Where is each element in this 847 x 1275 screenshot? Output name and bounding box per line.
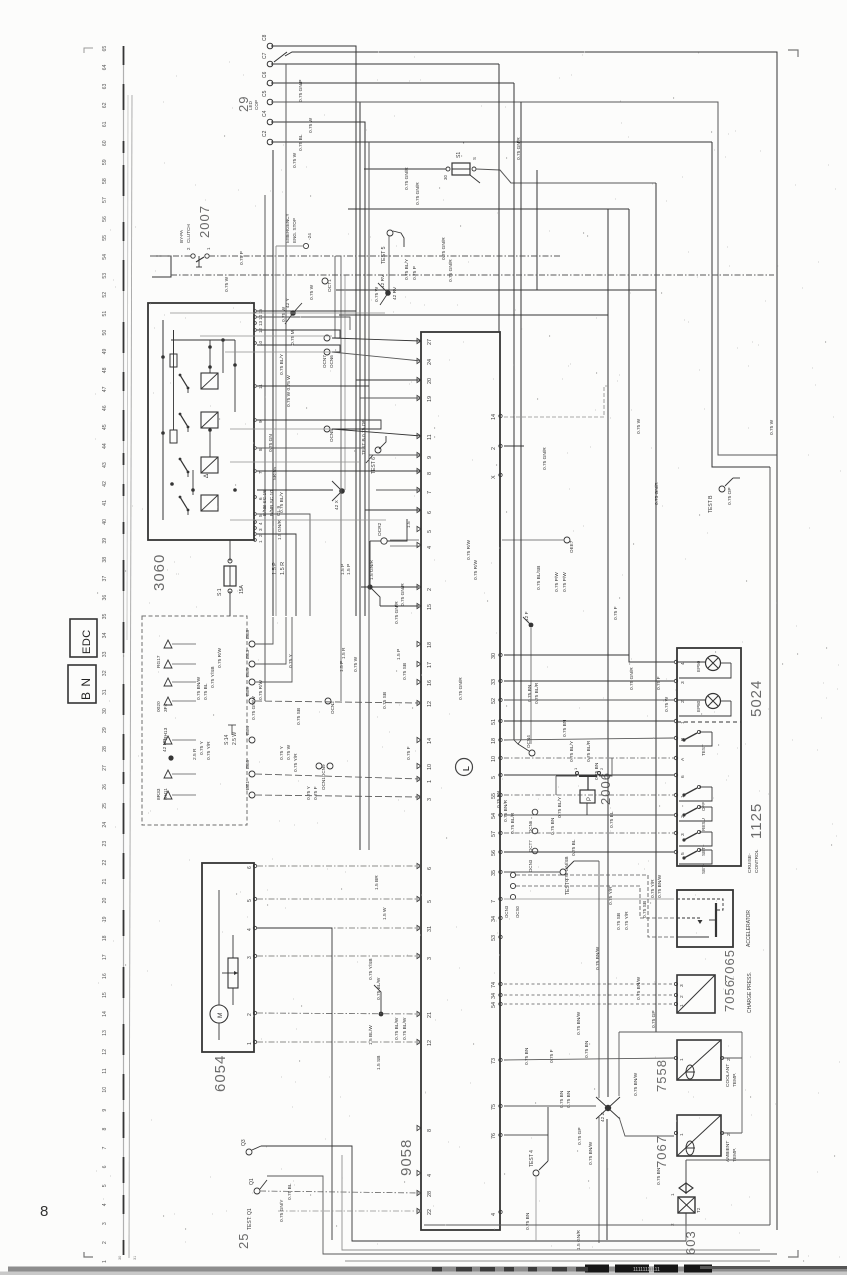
connector OCN4 xyxy=(526,735,535,756)
ambient temp sensor 7067 xyxy=(677,1115,721,1156)
connector OCT1 xyxy=(322,278,333,292)
svg-text:1: 1 xyxy=(258,540,263,543)
svg-text:51: 51 xyxy=(102,311,108,317)
fuse 15A S:1 xyxy=(217,559,245,596)
svg-text:EE3: EE3 xyxy=(245,650,251,659)
svg-text:0.75 OP: 0.75 OP xyxy=(727,487,733,505)
svg-text:0.75 Y: 0.75 Y xyxy=(279,745,285,760)
svg-text:L: L xyxy=(462,766,471,771)
svg-text:15A: 15A xyxy=(239,584,245,594)
svg-text:1.5: 1.5 xyxy=(406,521,412,528)
svg-text:C2: C2 xyxy=(262,130,268,137)
svg-text:29: 29 xyxy=(102,727,108,733)
svg-text:15: 15 xyxy=(427,604,433,610)
svg-text:1.5 R: 1.5 R xyxy=(341,647,347,659)
svg-text:6: 6 xyxy=(427,511,433,514)
svg-text:18: 18 xyxy=(491,738,497,744)
svg-text:AMBIENT: AMBIENT xyxy=(725,1141,731,1162)
svg-text:37: 37 xyxy=(102,576,108,582)
svg-text:0.75 BN/W: 0.75 BN/W xyxy=(657,874,663,898)
svg-text:55: 55 xyxy=(102,235,108,241)
emergency stop label xyxy=(285,213,313,248)
svg-text:0.75 R/W: 0.75 R/W xyxy=(473,560,479,580)
svg-text:0.75 GN/P: 0.75 GN/P xyxy=(298,80,304,102)
svg-text:54: 54 xyxy=(491,813,497,819)
svg-text:4: 4 xyxy=(247,928,253,931)
svg-text:OCN4: OCN4 xyxy=(526,735,531,748)
svg-text:15: 15 xyxy=(102,992,108,998)
svg-text:33: 33 xyxy=(491,679,497,685)
svg-text:10: 10 xyxy=(427,764,433,770)
svg-text:0.75 Y/R: 0.75 Y/R xyxy=(624,911,630,930)
svg-text:EE5: EE5 xyxy=(245,668,251,677)
svg-text:0.75 Y/SB: 0.75 Y/SB xyxy=(210,666,216,688)
connector triangles and EE circles xyxy=(156,630,255,800)
svg-text:0.75 W: 0.75 W xyxy=(664,696,670,712)
svg-text:0.75 SB: 0.75 SB xyxy=(616,913,622,930)
svg-text:21: 21 xyxy=(102,879,108,885)
svg-text:EE8: EE8 xyxy=(245,630,251,639)
svg-text:7: 7 xyxy=(258,471,263,474)
svg-text:0.75 BL/Y: 0.75 BL/Y xyxy=(404,258,410,280)
svg-text:EDC: EDC xyxy=(81,629,93,654)
charge sensor pins xyxy=(674,982,685,1007)
svg-text:7056: 7056 xyxy=(722,979,737,1012)
svg-text:2006: 2006 xyxy=(598,772,613,805)
svg-text:23: 23 xyxy=(102,841,108,847)
svg-text:2: 2 xyxy=(491,447,497,450)
svg-text:5: 5 xyxy=(427,530,433,533)
6054 pins xyxy=(247,864,257,1045)
corner marks xyxy=(84,48,93,53)
test point 7 xyxy=(560,861,574,895)
svg-text:0.75 F: 0.75 F xyxy=(613,606,619,620)
svg-text:8R33: 8R33 xyxy=(156,788,162,800)
svg-text:0.75 M: 0.75 M xyxy=(290,330,296,345)
connector OCN5 xyxy=(324,426,334,442)
svg-text:10: 10 xyxy=(491,756,497,762)
svg-text:22: 22 xyxy=(427,1209,433,1215)
svg-text:BY-PA: BY-PA xyxy=(179,229,184,243)
svg-text:2.5 R: 2.5 R xyxy=(192,748,198,760)
svg-text:24: 24 xyxy=(427,359,433,365)
svg-text:48: 48 xyxy=(102,367,108,373)
svg-text:0020: 0020 xyxy=(156,701,162,712)
svg-text:TEST 5: TEST 5 xyxy=(381,246,387,264)
svg-text:0.75 BN/W: 0.75 BN/W xyxy=(595,946,601,970)
svg-text:56: 56 xyxy=(102,216,108,222)
svg-text:TEST B: TEST B xyxy=(708,495,714,513)
connectors OCN6 OCN7 xyxy=(322,335,334,368)
svg-text:1.5 SB: 1.5 SB xyxy=(376,1056,382,1070)
svg-text:T2: T2 xyxy=(696,1207,701,1213)
svg-text:75: 75 xyxy=(491,1104,497,1110)
svg-text:1: 1 xyxy=(102,1260,108,1263)
svg-text:TEMP.: TEMP. xyxy=(732,1073,738,1087)
svg-text:0.75 F: 0.75 F xyxy=(549,1049,555,1063)
junction 42 K xyxy=(367,584,372,589)
ECU left pins xyxy=(417,338,433,1215)
svg-text:2: 2 xyxy=(680,700,686,703)
svg-text:65: 65 xyxy=(102,46,108,52)
svg-text:2: 2 xyxy=(679,995,685,998)
svg-text:1: 1 xyxy=(247,1042,253,1045)
svg-text:43: 43 xyxy=(102,462,108,468)
connector Q3 xyxy=(241,1139,261,1155)
svg-text:13: 13 xyxy=(258,320,263,326)
svg-text:12: 12 xyxy=(102,1049,108,1055)
svg-text:CONTROL: CONTROL xyxy=(754,849,760,873)
svg-text:CRUISE-: CRUISE- xyxy=(747,853,753,873)
svg-text:0.75 BN: 0.75 BN xyxy=(559,1090,565,1108)
svg-text:0.75 W: 0.75 W xyxy=(636,418,642,434)
svg-text:45: 45 xyxy=(102,424,108,430)
svg-text:0.75 GP: 0.75 GP xyxy=(577,1127,583,1145)
svg-text:0.75 GN: 0.75 GN xyxy=(268,434,274,452)
svg-text:18: 18 xyxy=(427,642,433,648)
svg-text:C6: C6 xyxy=(262,71,268,78)
svg-text:0.75 W: 0.75 W xyxy=(353,656,359,672)
svg-text:19: 19 xyxy=(102,916,108,922)
svg-text:Q3: Q3 xyxy=(241,1139,247,1146)
svg-text:0.75 W 0.75 W: 0.75 W 0.75 W xyxy=(286,375,292,407)
svg-text:1: 1 xyxy=(679,1133,685,1136)
svg-text:7558: 7558 xyxy=(654,1059,669,1092)
svg-text:-24: -24 xyxy=(307,233,313,240)
svg-text:0.75 Y: 0.75 Y xyxy=(288,653,294,668)
svg-text:76: 76 xyxy=(491,1133,497,1139)
svg-text:0.75 GN/R: 0.75 GN/R xyxy=(441,237,447,260)
svg-text:41: 41 xyxy=(102,500,108,506)
svg-text:OCN1OCN9: OCN1OCN9 xyxy=(321,764,326,790)
svg-text:1: 1 xyxy=(427,780,433,783)
svg-text:1.5 GN/R: 1.5 GN/R xyxy=(576,1229,582,1250)
connector OCR2 xyxy=(377,522,387,544)
test point 6 xyxy=(366,436,386,474)
svg-text:TEST: Q1: TEST: Q1 xyxy=(247,1208,253,1230)
test point 4 xyxy=(529,1150,548,1176)
connectors OCN3 row xyxy=(504,872,520,918)
svg-text:0.75 GN/R: 0.75 GN/R xyxy=(448,259,454,282)
svg-text:EP80: EP80 xyxy=(696,700,701,712)
svg-text:62: 62 xyxy=(102,102,108,108)
svg-text:3: 3 xyxy=(247,956,253,959)
svg-text:EE9: EE9 xyxy=(245,687,251,696)
svg-text:0.75 BN/R: 0.75 BN/R xyxy=(503,799,509,822)
svg-text:1125: 1125 xyxy=(748,803,765,839)
svg-text:0.75 P/W: 0.75 P/W xyxy=(562,572,568,592)
svg-text:16: 16 xyxy=(102,973,108,979)
op-amp style L circle xyxy=(456,759,473,776)
svg-text:44: 44 xyxy=(102,443,108,449)
svg-text:28: 28 xyxy=(427,1191,433,1197)
svg-text:0.75 BL/W: 0.75 BL/W xyxy=(376,977,382,1000)
svg-text:0.75 Y/R: 0.75 Y/R xyxy=(206,741,212,760)
lamp EP50 xyxy=(677,656,731,679)
svg-text:21: 21 xyxy=(427,1012,433,1018)
svg-text:2007: 2007 xyxy=(197,205,212,238)
svg-text:4: 4 xyxy=(491,1213,497,1216)
svg-text:LED: LED xyxy=(248,100,253,110)
svg-text:1: 1 xyxy=(670,1193,675,1196)
svg-text:COP: COP xyxy=(254,100,259,110)
svg-text:36: 36 xyxy=(102,595,108,601)
svg-text:11: 11 xyxy=(102,1068,108,1073)
svg-text:S: S xyxy=(472,157,477,160)
svg-text:0.75 BL/R: 0.75 BL/R xyxy=(534,682,540,704)
svg-text:Δ: Δ xyxy=(204,474,210,478)
svg-text:RG17: RG17 xyxy=(156,655,162,668)
svg-text:63: 63 xyxy=(102,83,108,89)
svg-text:CHARGE PRESS.: CHARGE PRESS. xyxy=(747,972,753,1013)
connector OCN2 xyxy=(325,698,335,714)
svg-text:33: 33 xyxy=(102,651,108,657)
wire labels xyxy=(192,80,775,1250)
svg-text:RH11: RH11 xyxy=(163,788,169,800)
svg-text:1: 1 xyxy=(680,721,686,724)
svg-text:OCN7: OCN7 xyxy=(322,355,327,368)
svg-text:0.75 Y/R: 0.75 Y/R xyxy=(650,879,656,898)
svg-text:0.75 W: 0.75 W xyxy=(224,276,230,292)
junction 42 X xyxy=(332,481,345,510)
ECU control unit 9058 box xyxy=(421,332,500,1230)
svg-text:5024: 5024 xyxy=(748,680,765,717)
cruise switches xyxy=(679,730,712,874)
label box EDC xyxy=(70,619,97,657)
svg-text:46: 46 xyxy=(102,405,108,411)
svg-text:0.75 F: 0.75 F xyxy=(656,676,662,690)
svg-text:5: 5 xyxy=(680,852,686,855)
svg-text:603: 603 xyxy=(683,1230,698,1255)
svg-text:OEE7: OEE7 xyxy=(569,540,574,553)
svg-text:OCN5: OCN5 xyxy=(329,429,334,442)
svg-text:0.75 GN/W: 0.75 GN/W xyxy=(251,696,257,720)
svg-text:7067: 7067 xyxy=(654,1135,669,1168)
svg-text:7: 7 xyxy=(491,900,497,903)
junction 42 RV xyxy=(378,274,391,305)
junction near 6054 xyxy=(379,1012,384,1017)
svg-text:1.5 P: 1.5 P xyxy=(340,564,346,575)
svg-text:57: 57 xyxy=(102,197,108,203)
svg-text:7065: 7065 xyxy=(722,949,737,982)
svg-text:C5: C5 xyxy=(262,90,268,97)
svg-text:42 F: 42 F xyxy=(524,611,530,621)
svg-text:14: 14 xyxy=(102,1011,108,1017)
svg-text:9058: 9058 xyxy=(398,1139,415,1176)
svg-text:0.75 GN/R: 0.75 GN/R xyxy=(400,583,406,606)
svg-text:5: 5 xyxy=(427,900,433,903)
svg-text:32: 32 xyxy=(102,670,108,676)
connectors OCN6 OCT7 OCN5 OCN8 inline xyxy=(528,809,538,872)
svg-text:0.75 BN: 0.75 BN xyxy=(550,817,556,835)
svg-text:34: 34 xyxy=(491,993,497,999)
svg-text:0.75 SB: 0.75 SB xyxy=(642,901,648,918)
svg-text:0.75 BL: 0.75 BL xyxy=(609,811,615,828)
svg-text:0.75 BN: 0.75 BN xyxy=(594,762,600,780)
svg-text:49: 49 xyxy=(102,348,108,354)
svg-text:2: 2 xyxy=(102,1241,108,1244)
svg-text:TEST 4: TEST 4 xyxy=(529,1150,535,1167)
svg-text:17: 17 xyxy=(102,954,108,960)
svg-text:0.75 GN/R: 0.75 GN/R xyxy=(404,167,410,190)
svg-text:6: 6 xyxy=(247,866,253,869)
svg-text:0.75 W: 0.75 W xyxy=(308,117,314,133)
connector Q1 xyxy=(249,1178,267,1194)
svg-text:8: 8 xyxy=(427,472,433,475)
svg-text:19: 19 xyxy=(427,396,433,402)
svg-text:0.75 GN/R: 0.75 GN/R xyxy=(394,601,400,624)
svg-text:M: M xyxy=(217,1013,224,1018)
svg-text:24: 24 xyxy=(102,822,108,828)
svg-text:30: 30 xyxy=(102,708,108,714)
svg-text:0.75 W: 0.75 W xyxy=(292,152,298,168)
bottom scan artifact band xyxy=(0,1265,847,1275)
svg-text:30: 30 xyxy=(118,1256,122,1260)
svg-text:0.75 BN: 0.75 BN xyxy=(656,1167,662,1185)
svg-text:OCN3: OCN3 xyxy=(504,905,509,918)
svg-text:1.5 BR: 1.5 BR xyxy=(374,875,380,890)
svg-text:C4: C4 xyxy=(262,110,268,117)
idle actuator 6054 box xyxy=(202,863,254,1052)
svg-text:0.75 GN/R: 0.75 GN/R xyxy=(415,182,421,205)
svg-text:0.75 GN/R: 0.75 GN/R xyxy=(458,677,464,700)
svg-text:0.75 BL: 0.75 BL xyxy=(287,1183,293,1200)
svg-text:59: 59 xyxy=(102,159,108,165)
junction 42 F xyxy=(523,617,533,627)
svg-text:27: 27 xyxy=(102,765,108,771)
lamp EP80 xyxy=(677,694,731,717)
svg-text:51: 51 xyxy=(491,719,497,725)
svg-text:P: P xyxy=(587,797,593,801)
svg-text:3: 3 xyxy=(258,528,263,531)
svg-text:6054: 6054 xyxy=(212,1055,229,1092)
svg-text:0.75 GP: 0.75 GP xyxy=(651,1010,657,1028)
svg-text:B/NB SC.10: B/NB SC.10 xyxy=(269,490,275,516)
svg-text:52: 52 xyxy=(102,292,108,298)
svg-text:0.75 R/W: 0.75 R/W xyxy=(258,680,264,700)
svg-text:1: 1 xyxy=(679,1058,685,1061)
svg-text:6: 6 xyxy=(427,867,433,870)
svg-text:0.75 BL: 0.75 BL xyxy=(203,683,209,700)
svg-text:0.75 BL: 0.75 BL xyxy=(298,134,304,151)
svg-text:S:14: S:14 xyxy=(224,734,230,745)
svg-text:8: 8 xyxy=(258,448,263,451)
svg-text:61: 61 xyxy=(102,121,108,127)
svg-text:4: 4 xyxy=(102,1203,108,1206)
svg-text:1.5 BL/W: 1.5 BL/W xyxy=(368,1025,374,1045)
svg-text:26: 26 xyxy=(102,784,108,790)
svg-text:S1: S1 xyxy=(456,152,462,158)
svg-text:OCR2: OCR2 xyxy=(377,522,383,536)
svg-text:57: 57 xyxy=(491,831,497,837)
svg-text:42 Z: 42 Z xyxy=(600,1112,606,1122)
svg-text:0.75 BL/W: 0.75 BL/W xyxy=(402,1017,408,1040)
svg-text:0.75 BN: 0.75 BN xyxy=(524,1047,530,1065)
charge pressure sensor box xyxy=(677,975,715,1013)
svg-text:2: 2 xyxy=(427,588,433,591)
svg-text:0.75 F: 0.75 F xyxy=(313,786,319,800)
svg-text:6: 6 xyxy=(102,1165,108,1168)
svg-text:22: 22 xyxy=(102,860,108,866)
svg-text:EE4: EE4 xyxy=(245,726,251,735)
svg-text:TEST: TEST xyxy=(701,744,706,756)
svg-text:16: 16 xyxy=(427,680,433,686)
motor M xyxy=(210,890,228,1040)
svg-text:0.75 GN/Y: 0.75 GN/Y xyxy=(279,1199,285,1222)
solenoid valve 603 xyxy=(670,1160,701,1226)
svg-text:0.75 GN/R: 0.75 GN/R xyxy=(542,447,548,470)
svg-text:54: 54 xyxy=(102,254,108,260)
svg-text:1.5 P: 1.5 P xyxy=(339,661,345,672)
svg-text:2: 2 xyxy=(670,1223,675,1226)
svg-text:B N: B N xyxy=(79,677,93,700)
svg-text:OFF: OFF xyxy=(701,802,706,811)
junction 42 Z xyxy=(596,1097,620,1122)
svg-text:3: 3 xyxy=(427,957,433,960)
svg-text:C8: C8 xyxy=(262,34,268,41)
svg-text:14: 14 xyxy=(427,738,433,744)
connector OEE7 xyxy=(564,537,574,553)
svg-text:3: 3 xyxy=(679,984,685,987)
svg-text:CLUTCH: CLUTCH xyxy=(186,224,191,243)
svg-text:1.5 P: 1.5 P xyxy=(396,649,402,660)
svg-text:S:1: S:1 xyxy=(217,588,223,596)
svg-text:3: 3 xyxy=(427,798,433,801)
svg-text:ACCELERATOR: ACCELERATOR xyxy=(746,910,752,947)
svg-text:2.5 W: 2.5 W xyxy=(232,732,238,745)
svg-text:0.75 SB: 0.75 SB xyxy=(382,692,388,709)
svg-text:0.75 Y/R: 0.75 Y/R xyxy=(608,886,614,905)
svg-text:42 X: 42 X xyxy=(334,499,340,510)
svg-text:14: 14 xyxy=(491,414,497,420)
svg-text:12: 12 xyxy=(427,1040,433,1046)
svg-text:4: 4 xyxy=(258,522,263,525)
svg-text:0.75 W: 0.75 W xyxy=(281,306,287,322)
svg-text:0.75 BL: 0.75 BL xyxy=(571,839,577,856)
svg-text:74: 74 xyxy=(491,982,497,988)
svg-text:73: 73 xyxy=(491,1058,497,1064)
svg-text:Q1: Q1 xyxy=(249,1178,255,1185)
ECU right pins xyxy=(491,414,502,1216)
svg-text:OCN6: OCN6 xyxy=(329,355,334,368)
svg-text:0.75 BL/SB: 0.75 BL/SB xyxy=(536,566,542,590)
svg-text:3: 3 xyxy=(102,1222,108,1225)
svg-text:0.75 BL/Y: 0.75 BL/Y xyxy=(279,353,285,375)
svg-text:1.5 R: 1.5 R xyxy=(280,562,286,575)
svg-text:18: 18 xyxy=(102,935,108,941)
svg-text:0.75 BN/W: 0.75 BN/W xyxy=(636,976,642,1000)
coolant temp sensor 7558 xyxy=(677,1040,721,1080)
clutch switch 2007 xyxy=(150,224,211,277)
svg-text:0.75 BN: 0.75 BN xyxy=(496,790,502,808)
svg-text:0.75 Y/R: 0.75 Y/R xyxy=(293,753,299,772)
svg-text:50: 50 xyxy=(102,330,108,336)
svg-text:25: 25 xyxy=(236,1233,251,1249)
svg-text:60: 60 xyxy=(102,140,108,146)
svg-text:20: 20 xyxy=(102,897,108,903)
svg-text:9: 9 xyxy=(427,456,433,459)
svg-text:0.75 GN/R: 0.75 GN/R xyxy=(516,137,522,160)
svg-text:0.75 Y: 0.75 Y xyxy=(306,785,312,800)
svg-text:0.75 BN: 0.75 BN xyxy=(527,684,533,702)
svg-text:0.75 Y/SB: 0.75 Y/SB xyxy=(368,958,374,980)
potentiometer xyxy=(222,935,238,1005)
svg-text:12: 12 xyxy=(427,701,433,707)
svg-text:0.75 GN/R: 0.75 GN/R xyxy=(629,667,635,690)
svg-text:42: 42 xyxy=(102,481,108,487)
svg-text:1.5 GN/R: 1.5 GN/R xyxy=(369,559,375,580)
junction 42 Y xyxy=(285,297,302,324)
